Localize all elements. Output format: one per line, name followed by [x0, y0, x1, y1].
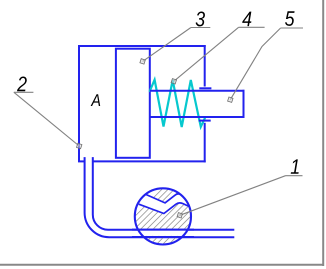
gland bar top — [199, 87, 211, 89]
window border bottom — [0, 264, 324, 266]
label 3 — [196, 12, 205, 27]
wire: pipe outer line (left/bottom) — [85, 157, 235, 237]
leader 5 — [230, 28, 280, 100]
marker 2 — [76, 143, 81, 148]
marker 3 — [140, 59, 145, 64]
wire: cylinder left edge — [78, 45, 80, 161]
break band (white) — [139, 194, 191, 214]
underline 2 — [14, 91, 34, 93]
leader lines — [14, 27, 303, 215]
wire: cylinder bottom-left corner piece — [78, 160, 85, 162]
window border right — [322, 0, 324, 266]
spring — [150, 80, 205, 127]
pipe from cylinder port — [85, 157, 235, 237]
break band upper boundary — [146, 194, 187, 203]
wire: cylinder bottom edge — [93, 160, 206, 162]
piston (inner rectangle) — [116, 49, 150, 158]
leader 1 — [180, 176, 286, 216]
piston rod — [150, 88, 245, 120]
label 2 — [17, 77, 27, 92]
wire: rod bottom line — [150, 116, 245, 118]
hatch fill — [99, 178, 254, 252]
marker 1 — [177, 213, 182, 218]
white strip between pipe lines inside circle — [130, 231, 200, 236]
leader 4 — [174, 27, 239, 81]
leader 2 — [14, 92, 79, 146]
wire: cylinder top edge — [78, 45, 206, 47]
wire: cylinder right wall upper segment — [204, 45, 206, 87]
wire: rod right end — [243, 90, 245, 118]
marker 5 — [228, 97, 233, 102]
gland bar bottom — [199, 120, 211, 122]
leader 3 — [143, 28, 191, 62]
break band lower boundary — [139, 203, 189, 214]
label 4 — [242, 12, 251, 26]
wire: pipe inner line (right/top) — [93, 157, 235, 230]
underline 4 — [239, 26, 265, 28]
cylinder body (outer rectangle) — [78, 45, 206, 162]
pipe lines over circle — [132, 230, 194, 237]
marker 4 — [171, 79, 176, 84]
label 5 — [285, 11, 295, 26]
marker squares — [76, 59, 233, 218]
underline 3 — [191, 27, 210, 29]
underline 1 — [286, 175, 303, 177]
underline 5 — [281, 27, 303, 29]
roller outline — [135, 188, 191, 244]
label A — [91, 94, 101, 106]
label 1 — [291, 159, 299, 173]
wire: rod top line — [150, 90, 245, 92]
wire: cylinder right wall lower segment — [204, 123, 206, 163]
